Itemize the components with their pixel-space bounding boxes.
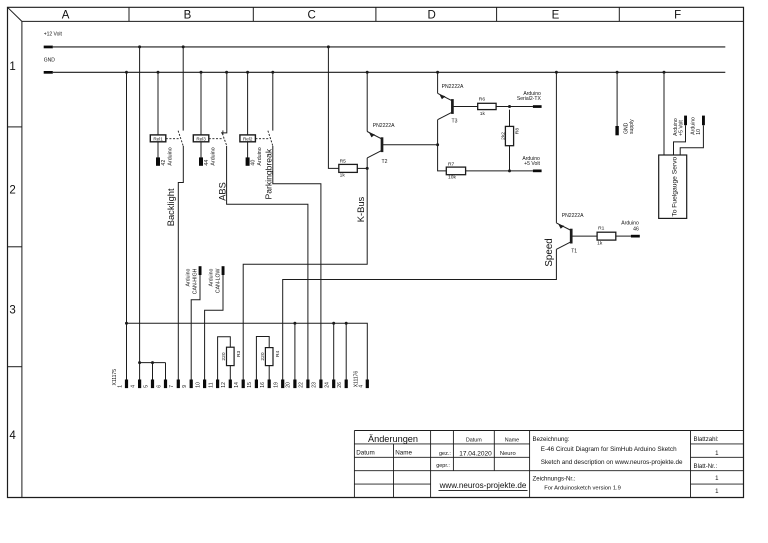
wire GND to T3 emitter: [437, 72, 439, 93]
wire +12V rail to X11175 pin 4: [139, 47, 141, 380]
svg-text:R5: R5: [340, 159, 347, 165]
transistor T2 (PN2222A): [367, 132, 382, 158]
transistor T3 (PN2222A): [438, 93, 453, 119]
pin label 4 (X11176): [358, 385, 364, 388]
svg-text:1k: 1k: [340, 173, 346, 179]
svg-text:Arduino: Arduino: [208, 268, 214, 286]
wire to pin 5: [152, 363, 154, 380]
wire Rel3 coil to Arduino 44: [200, 142, 202, 158]
svg-text:R7: R7: [448, 161, 455, 167]
svg-text:T2: T2: [382, 159, 388, 165]
connector X11175 pin 20: [293, 380, 296, 389]
wire Rel2 switch to X11175 pin 23 (Parkingbreak): [273, 146, 321, 380]
wire servo box to Arduino +5 Volt terminal: [674, 125, 686, 155]
svg-text:GND: GND: [44, 58, 56, 64]
label R7: [448, 161, 455, 167]
wire GND to Rel3 coil: [200, 72, 202, 135]
wire pin 15 to R4: [256, 337, 269, 380]
connector X11175 pin 22: [306, 380, 309, 389]
relay switch blade Rel2: [268, 131, 273, 146]
wire GND to T1 emitter: [555, 72, 557, 223]
label Arduino 46: [621, 220, 639, 226]
svg-text:For Arduinosketch version 1.9: For Arduinosketch version 1.9: [544, 486, 621, 492]
wire Rel1 coil to Arduino 42: [157, 142, 159, 158]
terminal Arduino Serial2-TX: [533, 105, 542, 108]
wire GND rail: [53, 71, 726, 73]
dashed actuator Rel3: [209, 138, 224, 140]
svg-text:24: 24: [325, 382, 331, 388]
svg-text:R4: R4: [275, 350, 281, 357]
svg-text:1k: 1k: [480, 111, 486, 117]
junction on GND rail: [125, 71, 128, 74]
label R3: [236, 350, 242, 357]
label 1k: [480, 111, 486, 117]
svg-text:4: 4: [358, 385, 364, 388]
terminal GND supply: [615, 126, 618, 135]
connector X11175 pin 11: [216, 380, 219, 389]
wire to pin 6: [165, 363, 167, 380]
label R1: [598, 226, 605, 232]
terminal Arduino 46: [631, 235, 640, 238]
svg-text:Arduino: Arduino: [211, 147, 217, 165]
svg-text:CAN-LOW: CAN-LOW: [215, 268, 221, 293]
svg-text:R6: R6: [479, 97, 486, 103]
junction on GND rail: [663, 71, 666, 74]
terminal +12V supply: [44, 46, 53, 49]
terminal Arduino +5 Volt (servo): [684, 116, 687, 126]
dashed actuator Rel1: [166, 138, 180, 140]
label Arduino 42: [161, 147, 174, 165]
connector X11175 pin 23: [319, 380, 322, 389]
connector X11175 pin 4: [138, 380, 141, 389]
wire R1 to Arduino 46 terminal: [616, 235, 631, 237]
pin label 19: [274, 382, 280, 388]
svg-text:4: 4: [130, 385, 136, 388]
svg-text:Speed: Speed: [544, 238, 555, 266]
svg-text:Rel1: Rel1: [153, 137, 163, 142]
svg-text:PN2222A: PN2222A: [442, 84, 464, 90]
pin label 20: [286, 382, 292, 388]
wire R4 to pin 16: [268, 366, 270, 380]
svg-text:E: E: [552, 9, 560, 21]
label T1: [571, 249, 577, 255]
dashed actuator Rel2: [255, 138, 269, 140]
net label GND: [44, 58, 56, 64]
wire Speed: T1 collector to X11175 pin 19: [283, 249, 557, 379]
svg-text:10: 10: [696, 129, 702, 135]
pin label 22: [299, 382, 305, 388]
wire Rel3 switch to X11175 pin 22 (ABS): [227, 146, 308, 380]
svg-text:1: 1: [117, 385, 123, 388]
wire GND to Rel3 switch contact: [221, 72, 227, 133]
label R5: [340, 159, 347, 165]
resistor R6: [478, 103, 496, 109]
svg-text:Arduino: Arduino: [168, 147, 174, 165]
junction on GND rail: [225, 71, 228, 74]
svg-text:4: 4: [9, 430, 16, 442]
svg-text:17.04.2020: 17.04.2020: [459, 451, 492, 458]
connector label X11175: [112, 369, 118, 386]
terminal Arduino 10: [702, 116, 705, 126]
svg-text:X11175: X11175: [112, 369, 118, 386]
connector X11175 pin 12: [229, 380, 232, 389]
svg-text:Bezeichnung:: Bezeichnung:: [533, 436, 570, 443]
junction T3 collector / T2 base: [436, 143, 439, 146]
connector X11175 pin 26: [345, 380, 348, 389]
label Arduino 10: [691, 117, 697, 135]
svg-text:T1: T1: [571, 249, 577, 255]
junction on +12V rail: [182, 45, 185, 48]
svg-text:14: 14: [234, 382, 240, 388]
terminal Arduino 44: [199, 157, 203, 165]
transistor T1 (PN2222A): [556, 223, 571, 249]
wire K-Bus: T2 collector to X11175 pin 14: [243, 158, 367, 380]
wire pin 11 to R3: [218, 337, 231, 380]
svg-text:Blatt-Nr.:: Blatt-Nr.:: [694, 463, 718, 470]
terminal Arduino CAN-HIGH: [199, 266, 202, 275]
junction on GND rail: [271, 71, 274, 74]
junction on +12V rail: [138, 45, 141, 48]
junction GND bus: [293, 322, 296, 325]
net label ABS: [218, 182, 228, 201]
block To Fuelgauge Servo: [659, 155, 687, 218]
pin label 1: [117, 385, 123, 388]
relay coil Rel1: [150, 135, 166, 142]
svg-text:B: B: [184, 9, 192, 21]
pin label 6: [156, 385, 162, 388]
svg-text:26: 26: [337, 382, 343, 388]
junction K-Bus node: [366, 167, 369, 170]
wire GND bus to pin 24: [333, 323, 335, 379]
pin label 11: [208, 382, 214, 387]
svg-text:Backlight: Backlight: [166, 188, 176, 226]
pin label 4: [130, 385, 136, 388]
svg-text:Rel3: Rel3: [196, 137, 206, 142]
connector X11175 pin 5: [151, 380, 154, 389]
svg-text:20: 20: [286, 382, 292, 388]
svg-text:Sketch and description on www.: Sketch and description on www.neuros-pro…: [541, 459, 683, 466]
svg-text:A: A: [62, 9, 70, 21]
svg-text:42: 42: [161, 160, 167, 166]
svg-text:15: 15: [247, 382, 253, 388]
label Arduino Serial2-TX: [523, 91, 541, 97]
svg-text:Name: Name: [505, 438, 519, 444]
svg-text:1k: 1k: [597, 241, 603, 247]
svg-text:Änderungen: Änderungen: [368, 434, 418, 444]
svg-text:Zeichnungs-Nr.:: Zeichnungs-Nr.:: [533, 475, 576, 482]
label To Fuelgauge Servo: [671, 156, 678, 216]
svg-text:Rel2: Rel2: [243, 137, 253, 142]
terminal Arduino 40: [246, 157, 250, 165]
wire servo box to Arduino 10 terminal: [680, 125, 703, 155]
connector label X11176: [354, 371, 360, 388]
wire T2 base to T3 collector node: [382, 144, 438, 146]
junction on GND rail: [157, 71, 160, 74]
svg-text:3: 3: [9, 305, 15, 317]
label 220 (R3): [221, 352, 227, 360]
wire Rel2 coil to Arduino 40: [247, 142, 249, 158]
resistor R1: [597, 232, 616, 240]
junction on GND rail: [200, 71, 203, 74]
wire CAN-HIGH to X11175 pin 9: [191, 275, 200, 380]
label Arduino 40: [250, 147, 263, 165]
label 2k2: [501, 132, 507, 140]
junction GND bus: [332, 322, 335, 325]
svg-text:CAN-HIGH: CAN-HIGH: [192, 268, 198, 294]
junction on GND rail: [246, 71, 249, 74]
svg-text:2k2: 2k2: [501, 132, 507, 140]
svg-text:+12 Volt: +12 Volt: [44, 32, 63, 38]
connector X11175 pin 24: [332, 380, 335, 389]
wire GND to Rel1 coil: [157, 72, 159, 135]
title block: [354, 431, 743, 498]
svg-text:46: 46: [633, 227, 639, 233]
svg-text:+5 Volt: +5 Volt: [678, 120, 684, 136]
resistor R7: [446, 167, 465, 175]
connector X11175 pin 15: [255, 380, 258, 389]
svg-text:5: 5: [143, 385, 149, 388]
wire R8 to +5V line: [509, 146, 511, 171]
resistor R5: [339, 164, 358, 172]
wire GND to Rel2 switch contact: [272, 72, 274, 130]
wire T1 base to R1: [571, 235, 597, 237]
terminal GND supply input: [44, 71, 53, 74]
label PN2222A (T3): [442, 84, 464, 90]
svg-text:R8: R8: [514, 128, 520, 135]
wire +12V to R5: [328, 47, 338, 168]
svg-text:Datum: Datum: [356, 449, 375, 456]
svg-text:Neuro: Neuro: [500, 451, 516, 457]
connector X11175 pin 10: [203, 380, 206, 389]
label 10k: [448, 175, 456, 181]
svg-text:PN2222A: PN2222A: [562, 213, 584, 219]
svg-text:1: 1: [9, 61, 15, 73]
label PN2222A (T1): [562, 213, 584, 219]
label 1k: [340, 173, 346, 179]
svg-text:gepr.:: gepr.:: [436, 463, 450, 469]
connector X11175 pin 9: [190, 380, 193, 389]
svg-text:40: 40: [250, 160, 256, 166]
svg-text:K-Bus: K-Bus: [355, 196, 366, 222]
svg-text:23: 23: [312, 382, 318, 388]
pin label 26: [337, 382, 343, 388]
relay coil Rel3: [193, 135, 209, 142]
relay coil Rel2: [240, 135, 256, 142]
svg-text:9: 9: [182, 385, 188, 388]
svg-text:ABS: ABS: [218, 182, 228, 201]
svg-text:supply: supply: [629, 119, 635, 134]
relay switch blade Rel1: [178, 131, 183, 146]
label 1k: [597, 241, 603, 247]
label Arduino +5 Volt (servo): [673, 118, 679, 136]
label R6: [479, 97, 486, 103]
wire GND to T2 emitter: [366, 72, 368, 131]
pin label 9: [182, 385, 188, 388]
svg-text:Arduino: Arduino: [185, 268, 191, 286]
wire R6 to Serial2-TX terminal: [496, 106, 533, 108]
svg-text:7: 7: [169, 385, 175, 388]
pin label 10: [195, 382, 201, 388]
label T3: [452, 118, 458, 124]
svg-text:10: 10: [195, 382, 201, 388]
wire +12V rail: [53, 46, 726, 48]
wire GND bus to pin 20: [294, 323, 296, 379]
junction pin 5 tie: [151, 361, 154, 364]
svg-text:R1: R1: [598, 226, 605, 232]
net label Backlight: [166, 188, 176, 226]
label R8: [514, 128, 520, 135]
wire GND bus to pin 26: [345, 323, 347, 379]
wire CAN-LOW to X11175 pin 10: [205, 275, 223, 380]
label Arduino CAN-LOW: [208, 268, 221, 293]
label T2: [382, 159, 388, 165]
svg-text:D: D: [428, 9, 436, 21]
svg-text:12: 12: [221, 382, 227, 388]
junction on GND rail: [555, 71, 558, 74]
connector X11175 pin 1: [125, 380, 128, 389]
svg-text:X11176: X11176: [354, 371, 360, 388]
wire TX line to R8: [509, 110, 511, 127]
wire GND to Rel2 coil: [247, 72, 249, 135]
svg-text:220: 220: [221, 352, 227, 360]
label PN2222A (T2): [373, 123, 395, 129]
svg-text:10k: 10k: [448, 175, 456, 181]
junction pin 4 tie: [138, 361, 141, 364]
junction GND bus: [125, 322, 128, 325]
pin label 5: [143, 385, 149, 388]
relay switch blade Rel3: [222, 133, 227, 146]
svg-text:Serial2-TX: Serial2-TX: [517, 96, 542, 102]
svg-text:C: C: [308, 9, 316, 21]
wire R5 to K-Bus node: [357, 167, 367, 169]
pin label 14: [234, 382, 240, 388]
wire GND bus to pins 20 24 26 and X11176 pin 4: [127, 323, 368, 379]
label R4: [275, 350, 281, 357]
svg-text:PN2222A: PN2222A: [373, 123, 395, 129]
terminal Arduino 42: [156, 157, 160, 165]
junction on GND rail: [436, 71, 439, 74]
svg-text:R3: R3: [236, 350, 242, 357]
pin label 24: [325, 382, 331, 388]
wire T3 collector down to R7: [438, 120, 447, 171]
svg-text:6: 6: [156, 385, 162, 388]
svg-text:Blattzahl:: Blattzahl:: [694, 436, 719, 443]
connector X11175 pin 6: [164, 380, 167, 389]
resistor R8: [505, 126, 513, 145]
wire GND rail to GND supply terminal: [616, 72, 618, 126]
label Arduino 44: [204, 147, 217, 165]
connector X11175 pin 19: [281, 380, 284, 389]
pin label 7: [169, 385, 175, 388]
pin label 23: [312, 382, 318, 388]
svg-text:Datum: Datum: [466, 438, 482, 444]
svg-text:220: 220: [260, 352, 266, 360]
junction on +12V rail: [327, 45, 330, 48]
resistor R4: [265, 348, 273, 366]
connector X11175 pin 7: [177, 380, 180, 389]
wire tie pins 4 5 6: [140, 362, 166, 364]
pin label 12: [221, 382, 227, 388]
resistor R3: [227, 347, 235, 365]
wire GND rail to fuelgauge servo box: [663, 72, 665, 155]
connector X11176 pin 4: [366, 380, 369, 389]
svg-text:Arduino: Arduino: [257, 147, 263, 165]
svg-text:19: 19: [274, 382, 280, 388]
junction on GND rail: [616, 71, 619, 74]
svg-text:E-46 Circuit Diagram for SimHu: E-46 Circuit Diagram for SimHub Arduino …: [541, 446, 677, 453]
junction GND bus: [345, 322, 348, 325]
pin label 15: [247, 382, 253, 388]
svg-text:www.neuros-projekte.de: www.neuros-projekte.de: [439, 481, 527, 490]
svg-text:16: 16: [260, 382, 266, 388]
label GND supply: [624, 122, 630, 134]
svg-text:Name: Name: [395, 449, 412, 456]
label Arduino CAN-HIGH: [185, 268, 198, 294]
wire R7 to Arduino +5 Volt terminal: [466, 170, 533, 172]
svg-text:F: F: [674, 9, 681, 21]
svg-text:2: 2: [9, 185, 15, 197]
junction R8 bottom: [508, 169, 511, 172]
svg-text:To Fuelgauge Servo: To Fuelgauge Servo: [671, 156, 678, 216]
terminal Arduino CAN-LOW: [222, 266, 225, 275]
wire Rel1 switch to X11175 pin 7 (Backlight): [178, 146, 183, 380]
net label Speed: [544, 238, 555, 266]
label Arduino +5 Volt: [522, 156, 540, 162]
junction on GND rail: [366, 71, 369, 74]
net label Parkingbreak: [264, 148, 274, 199]
net label K-Bus: [355, 196, 366, 222]
svg-text:11: 11: [208, 382, 214, 387]
junction R8 top: [508, 105, 511, 108]
pin label 16: [260, 382, 266, 388]
svg-text:gez.:: gez.:: [439, 451, 451, 457]
svg-text:44: 44: [204, 160, 210, 166]
svg-text:T3: T3: [452, 118, 458, 124]
svg-text:22: 22: [299, 382, 305, 388]
terminal Arduino +5 Volt: [533, 170, 542, 173]
wire +12V to Rel1 switch contact: [182, 47, 184, 131]
connector X11175 pin 16: [268, 380, 271, 389]
wire GND rail to X11175 pin 1: [126, 72, 128, 379]
wire T3 base to R6: [452, 106, 477, 108]
net label +12 Volt: [44, 32, 63, 38]
wire R3 to pin 12: [229, 366, 231, 380]
svg-text:Parkingbreak: Parkingbreak: [264, 148, 274, 199]
connector X11175 pin 14: [242, 380, 245, 389]
svg-text:Arduino: Arduino: [621, 220, 639, 226]
svg-text:+5 Volt: +5 Volt: [524, 161, 540, 167]
label 220 (R4): [260, 352, 266, 360]
relay switch contact tick Rel3: [222, 130, 224, 135]
